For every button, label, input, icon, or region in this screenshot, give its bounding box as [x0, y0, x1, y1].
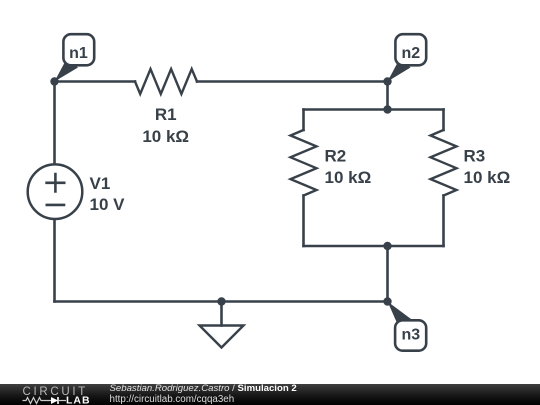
wire: R2 to parallel bottom rail: [302, 196, 305, 247]
V1 minus sign: [47, 204, 64, 207]
ground symbol: [200, 326, 244, 348]
footer bar: [0, 384, 540, 405]
n3 label tail: [388, 302, 413, 324]
svg-text:LAB: LAB: [66, 395, 91, 405]
wire: R3 to parallel bottom rail: [442, 196, 445, 247]
wire: n2 down to parallel top rail: [386, 82, 389, 110]
junction dot node n2: [383, 77, 391, 85]
wire: n1 to R1 left lead: [55, 80, 136, 83]
svg-text:R2: R2: [325, 147, 347, 166]
svg-text:R3: R3: [464, 147, 486, 166]
node label box n3: [395, 320, 426, 350]
svg-text:V1: V1: [90, 174, 111, 193]
resistor R1 body: [135, 69, 197, 94]
svg-text:n1: n1: [69, 45, 88, 62]
svg-text:10 V: 10 V: [90, 195, 126, 214]
wire: ground stub: [220, 302, 223, 326]
voltage source V1 circle: [28, 164, 83, 219]
svg-text:n2: n2: [401, 45, 420, 62]
junction dot ground: [217, 297, 225, 305]
CircuitLab logo: [14, 384, 110, 405]
credit line: [110, 384, 297, 393]
node label box n1: [63, 34, 94, 65]
junction dot node n1: [50, 77, 58, 85]
resistor R2 body: [291, 130, 317, 196]
wire: top rail down to R3: [442, 110, 445, 131]
resistor R3 body: [431, 130, 457, 196]
n1 label tail: [55, 59, 79, 82]
wire: parallel bottom rail: [304, 245, 444, 248]
V1 plus sign: [47, 174, 65, 191]
junction dot parallel top rail: [383, 105, 391, 113]
n2 label tail: [388, 59, 411, 82]
junction dot parallel bottom rail: [383, 242, 391, 250]
wire: bottom rail down to n3: [386, 246, 389, 302]
svg-text:10 kΩ: 10 kΩ: [325, 168, 372, 187]
wire: R1 right lead to n2: [197, 80, 388, 83]
svg-text:R1: R1: [155, 105, 177, 124]
logo resistor zigzag: [23, 398, 52, 404]
logo diode: [51, 397, 58, 404]
svg-text:n3: n3: [401, 327, 420, 344]
url line: [110, 394, 235, 405]
node label box n2: [395, 34, 426, 65]
wire: top rail down to R2: [302, 110, 305, 131]
wire: n1 down to V1 plus terminal: [53, 82, 56, 165]
junction dot node n3: [383, 297, 391, 305]
wire: parallel top rail: [304, 108, 444, 111]
wire: bottom return n3 to V1: [55, 300, 388, 303]
svg-text:10 kΩ: 10 kΩ: [464, 168, 511, 187]
wire: V1 minus terminal down to bottom rail: [53, 220, 56, 302]
svg-text:10 kΩ: 10 kΩ: [142, 127, 189, 146]
